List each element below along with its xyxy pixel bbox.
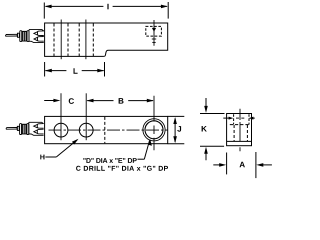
label B — [119, 98, 124, 104]
end view bottom inner line — [227, 140, 252, 142]
hole 2 vertical centerline / C-B extension — [85, 93, 87, 140]
plan view connector flange 2 — [27, 124, 29, 135]
label K — [202, 126, 207, 132]
label A — [240, 162, 245, 168]
side view strain relief crown — [29, 30, 44, 43]
plan view connector knurled section (dark) — [22, 124, 27, 134]
dimension A outside arrows — [213, 163, 272, 167]
dimension K top arrow — [204, 98, 208, 113]
dimension I line with arrows — [45, 5, 168, 9]
plan view tapped hole outer circle — [143, 119, 165, 141]
label L — [74, 68, 78, 74]
label H — [40, 155, 44, 160]
plan view body — [45, 116, 168, 143]
plan view hidden step line (dashed) — [104, 117, 106, 143]
label C — [69, 98, 74, 104]
note line 1 — [83, 158, 137, 163]
side view cable — [5, 34, 17, 36]
plan view top edge extension for J — [168, 115, 185, 117]
end view lower hidden hole edges (dashed) — [234, 125, 247, 141]
plan view bottom edge extension for J — [168, 143, 185, 145]
plan view connector flange 1 — [20, 124, 22, 135]
dimension L line with arrows — [45, 69, 105, 73]
end view vertical centerline — [239, 109, 241, 152]
side view connector flange 1 — [20, 31, 22, 42]
dimension C outside arrow — [44, 99, 60, 103]
tapped hole vertical centerline / B extension — [153, 96, 155, 151]
dimension A extension lines — [226, 153, 228, 175]
dimension L extension lines — [44, 62, 46, 77]
label I — [107, 4, 108, 10]
hole 1 vertical centerline / C extension — [60, 93, 62, 140]
plan view horizontal centerline — [49, 129, 168, 131]
side view body outline — [45, 23, 168, 56]
end view hidden counterbore bottom (dashed) — [230, 124, 249, 126]
side view hole 2 centerline — [85, 20, 87, 60]
side view hidden tapped hole (dashed square) — [146, 26, 162, 36]
plan view hole 2 circle — [79, 123, 93, 137]
dimension I extension lines — [43, 3, 45, 19]
dimension B line with arrows — [87, 99, 154, 103]
dimension K bottom extension line — [200, 145, 224, 147]
side view connector flange 2 — [27, 31, 29, 42]
tapped hole centerline with depth arrow — [152, 20, 156, 46]
note line 2 — [76, 166, 168, 171]
dimension J double arrow — [173, 117, 177, 143]
end view hidden thread row with arrows — [223, 117, 255, 120]
side view hole 1 hidden edges (dashed) — [54, 24, 68, 57]
plan view hole 1 circle — [54, 123, 68, 137]
plan view tapped hole inner circle — [145, 121, 163, 139]
side view hole 2 hidden edges (dashed) — [79, 24, 93, 57]
label J — [177, 126, 181, 132]
side view cable ferrule — [17, 33, 19, 37]
plan view cable ferrule — [17, 126, 19, 130]
side view connector knurled section (dark) — [22, 31, 27, 41]
end view upper hidden hole edges (dashed) — [234, 114, 249, 124]
dimension K bottom arrow — [204, 147, 208, 161]
leader note to tapped hole — [138, 139, 152, 160]
plan view cable — [6, 128, 17, 130]
side view hole 1 centerline — [60, 20, 62, 60]
plan view strain relief crown — [29, 122, 44, 135]
dimension K top extension line — [200, 113, 225, 115]
leader H to hole 2 — [45, 139, 78, 157]
end view rectangle — [227, 114, 252, 146]
